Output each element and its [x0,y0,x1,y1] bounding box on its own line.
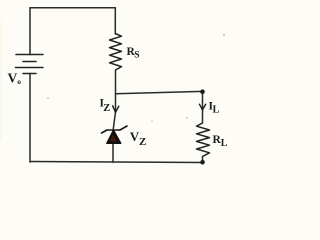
arrow IL on wire [199,104,205,110]
wire Rs branch top [114,8,116,34]
wire mid node horizontal [116,91,203,93]
wire zener to bottom [112,144,114,163]
svg-text:L: L [213,105,220,116]
resistor RS zigzag [110,34,122,71]
svg-text:Z: Z [139,136,146,148]
wire bottom horizontal [30,162,203,163]
zener diode VZ anode triangle [107,130,121,143]
wire left vertical upper [29,8,31,55]
node junction dot top [200,89,205,94]
wire left vertical lower [29,74,31,163]
node junction dot bottom [200,160,205,165]
wire junction to zener with lean [113,94,115,130]
zener diode VZ cathode bar [102,126,128,133]
svg-text:Z: Z [103,103,110,114]
svg-text:L: L [221,138,228,149]
wire Rs to junction [115,70,117,94]
svg-text:V: V [8,71,18,86]
zener triangle red-brown tint [110,134,117,141]
faint left edge scan tint [0,60,2,140]
wire RL branch lower [202,157,204,163]
resistor RL zigzag [197,123,210,157]
wire RL branch upper [202,91,204,123]
battery V_o plates [16,55,44,74]
svg-text:S: S [134,51,139,61]
speck [223,34,225,36]
svg-text:o: o [17,77,21,86]
arrow IZ on wire [113,106,119,113]
wire top horizontal [30,7,115,9]
